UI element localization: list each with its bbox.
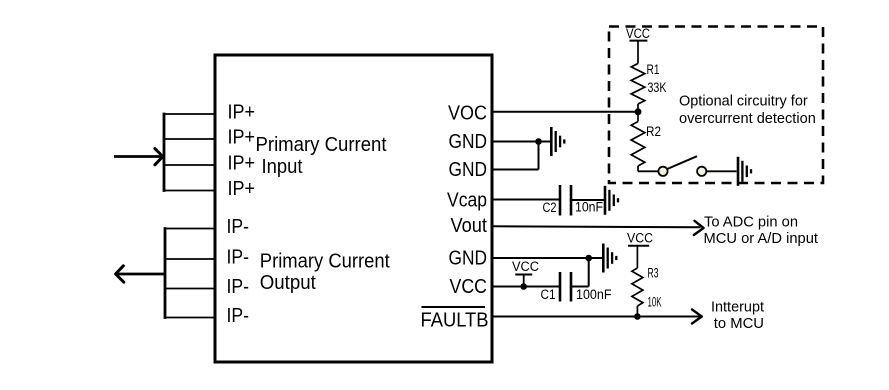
- svg-text:IP+: IP+: [228, 177, 256, 200]
- svg-text:VCC: VCC: [450, 275, 488, 298]
- svg-text:GND: GND: [449, 158, 488, 181]
- svg-text:FAULTB: FAULTB: [421, 309, 489, 332]
- svg-text:GND: GND: [449, 130, 488, 153]
- svg-text:Output: Output: [260, 272, 316, 294]
- svg-text:C1: C1: [541, 287, 556, 302]
- svg-text:overcurrent detection: overcurrent detection: [679, 110, 816, 127]
- svg-text:Intterupt: Intterupt: [711, 298, 765, 315]
- svg-text:10K: 10K: [648, 295, 662, 310]
- svg-text:33K: 33K: [648, 80, 667, 95]
- svg-text:IP-: IP-: [227, 215, 250, 238]
- svg-text:Primary Current: Primary Current: [260, 251, 390, 273]
- svg-text:IP-: IP-: [227, 275, 250, 298]
- svg-text:R1: R1: [647, 62, 660, 77]
- svg-text:IP+: IP+: [228, 101, 256, 124]
- svg-text:R3: R3: [648, 266, 659, 281]
- svg-text:IP-: IP-: [227, 304, 250, 327]
- svg-text:VOC: VOC: [448, 101, 487, 124]
- svg-text:Vout: Vout: [451, 214, 488, 237]
- svg-text:MCU or A/D input: MCU or A/D input: [704, 230, 819, 247]
- svg-text:VCC: VCC: [626, 26, 650, 41]
- svg-text:VCC: VCC: [627, 231, 653, 246]
- svg-text:VCC: VCC: [512, 259, 539, 274]
- svg-text:R2: R2: [646, 124, 661, 139]
- svg-text:to MCU: to MCU: [714, 315, 764, 332]
- svg-text:IP+: IP+: [228, 126, 256, 149]
- svg-text:To ADC pin on: To ADC pin on: [704, 213, 798, 230]
- svg-text:Optional circuitry for: Optional circuitry for: [679, 93, 808, 110]
- svg-text:C2: C2: [543, 200, 557, 215]
- svg-text:100nF: 100nF: [576, 287, 612, 302]
- svg-text:IP-: IP-: [227, 246, 250, 269]
- svg-text:10nF: 10nF: [575, 200, 603, 215]
- svg-text:Primary Current: Primary Current: [256, 134, 387, 156]
- svg-text:Input: Input: [262, 156, 303, 178]
- svg-text:GND: GND: [449, 247, 488, 270]
- svg-text:IP+: IP+: [228, 152, 256, 175]
- svg-text:Vcap: Vcap: [447, 189, 487, 212]
